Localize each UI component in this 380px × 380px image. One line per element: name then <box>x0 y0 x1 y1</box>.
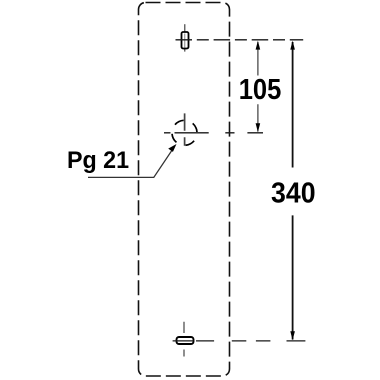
leader arrowhead <box>169 145 176 152</box>
arrow down 105 <box>256 123 261 132</box>
bottom slot vertical centerline <box>183 322 185 357</box>
bottom slot horizontal centerline / extension line <box>173 340 306 342</box>
plate outline (dashed, rounded) <box>139 3 230 377</box>
bottom slot <box>177 337 194 344</box>
svg-text:Pg 21: Pg 21 <box>67 148 129 174</box>
hole horizontal centerline / extension line <box>164 132 263 134</box>
top slot <box>182 32 189 49</box>
arrow up 340 <box>290 41 295 50</box>
svg-text:340: 340 <box>271 176 316 208</box>
dimension line 105 (vertical) <box>257 42 259 132</box>
leader line <box>88 148 174 177</box>
hole vertical centerline <box>184 113 186 145</box>
Pg 21 hole (dashed circle) <box>172 120 197 145</box>
top slot vertical centerline <box>184 24 186 51</box>
arrow up 105 <box>256 41 261 50</box>
top slot horizontal centerline / extension line <box>176 39 304 41</box>
svg-text:105: 105 <box>239 73 282 106</box>
arrow down 340 <box>290 331 295 340</box>
dimension line 340 (vertical) <box>292 42 294 340</box>
